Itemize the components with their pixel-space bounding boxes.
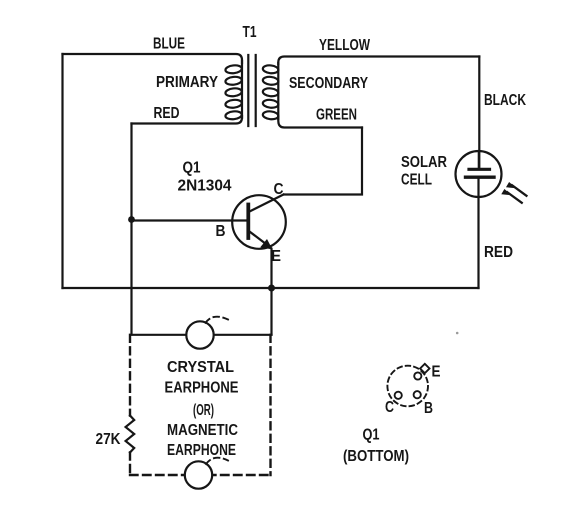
svg-text:MAGNETIC: MAGNETIC <box>167 422 238 439</box>
magnetic earphone <box>185 458 228 489</box>
wire GREEN secondary bottom lead <box>278 117 362 128</box>
Q1 bottom view pin C <box>395 392 402 399</box>
svg-text:C: C <box>385 399 394 416</box>
svg-text:RED: RED <box>154 105 180 122</box>
crystal earphone <box>186 317 228 349</box>
transformer T1 core <box>248 55 255 126</box>
svg-text:PRIMARY: PRIMARY <box>156 74 218 91</box>
dashed wire left upper <box>129 335 131 416</box>
wire YELLOW secondary top lead <box>278 57 479 65</box>
dashed wire bottom <box>130 474 271 476</box>
Q1 bottom view pin B <box>414 391 421 398</box>
svg-text:Q1: Q1 <box>183 160 201 177</box>
svg-text:CRYSTAL: CRYSTAL <box>167 359 234 376</box>
svg-text:SOLAR: SOLAR <box>401 154 447 171</box>
wire right vertical BLACK <box>478 57 480 169</box>
node base junction <box>128 216 135 223</box>
svg-text:EARPHONE: EARPHONE <box>167 442 236 459</box>
svg-text:SECONDARY: SECONDARY <box>289 75 368 92</box>
svg-text:(BOTTOM): (BOTTOM) <box>343 448 409 465</box>
svg-text:B: B <box>424 400 433 417</box>
svg-text:T1: T1 <box>243 24 257 41</box>
svg-text:B: B <box>216 223 226 240</box>
Q1 bottom view pin E <box>414 372 421 379</box>
transistor Q1 <box>232 195 286 249</box>
transformer T1 primary winding <box>225 61 242 120</box>
wire BLUE top lead <box>63 54 243 63</box>
wire bottom rail <box>63 287 479 289</box>
node emitter junction <box>268 285 275 292</box>
svg-text:C: C <box>274 181 284 198</box>
wire right vertical RED <box>477 179 479 288</box>
wire RED primary bottom lead <box>132 116 243 124</box>
svg-text:(OR): (OR) <box>193 402 214 419</box>
svg-text:EARPHONE: EARPHONE <box>165 380 239 397</box>
svg-text:27K: 27K <box>96 431 121 448</box>
wire emitter vertical <box>270 249 272 335</box>
svg-text:GREEN: GREEN <box>316 107 357 124</box>
transformer T1 secondary winding <box>262 63 278 120</box>
svg-text:Q1: Q1 <box>363 427 380 444</box>
wire collector to GREEN <box>284 128 362 195</box>
svg-text:E: E <box>271 248 281 265</box>
wire base lead <box>132 219 248 221</box>
svg-text:BLACK: BLACK <box>484 92 526 109</box>
svg-text:2N1304: 2N1304 <box>178 178 232 195</box>
dashed wire left lower <box>129 453 131 476</box>
svg-text:YELLOW: YELLOW <box>319 37 371 54</box>
svg-text:RED: RED <box>484 244 513 261</box>
Q1 bottom view case <box>387 366 428 407</box>
resistor 27K <box>126 416 135 453</box>
speck <box>456 332 459 335</box>
wire earphone top <box>132 334 272 336</box>
Q1 bottom view tab <box>420 364 429 373</box>
svg-text:E: E <box>432 364 441 381</box>
dashed wire right <box>269 335 271 475</box>
solar cell <box>456 151 527 203</box>
svg-text:CELL: CELL <box>401 172 432 189</box>
wire left inner vertical <box>130 124 132 335</box>
svg-text:BLUE: BLUE <box>153 36 185 53</box>
wire left outer vertical <box>61 54 63 288</box>
